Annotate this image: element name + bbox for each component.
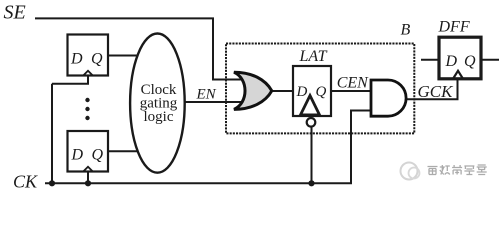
svg-text:EN: EN <box>196 87 217 103</box>
svg-text:Q: Q <box>316 84 327 100</box>
svg-text:B: B <box>401 21 411 38</box>
svg-text:D: D <box>70 50 83 67</box>
svg-text:D: D <box>296 84 308 100</box>
svg-text:D: D <box>71 146 84 163</box>
svg-text:SE: SE <box>4 2 26 24</box>
svg-text:Q: Q <box>92 146 104 163</box>
svg-text:D: D <box>445 53 458 70</box>
svg-text:GCK: GCK <box>418 82 455 101</box>
svg-text:DFF: DFF <box>438 19 470 36</box>
svg-text:Q: Q <box>464 53 476 70</box>
svg-text:CK: CK <box>13 171 38 191</box>
svg-text:LAT: LAT <box>299 48 328 65</box>
svg-text:CEN: CEN <box>337 75 369 92</box>
svg-text:logic: logic <box>144 109 174 125</box>
svg-text:Q: Q <box>91 50 103 67</box>
